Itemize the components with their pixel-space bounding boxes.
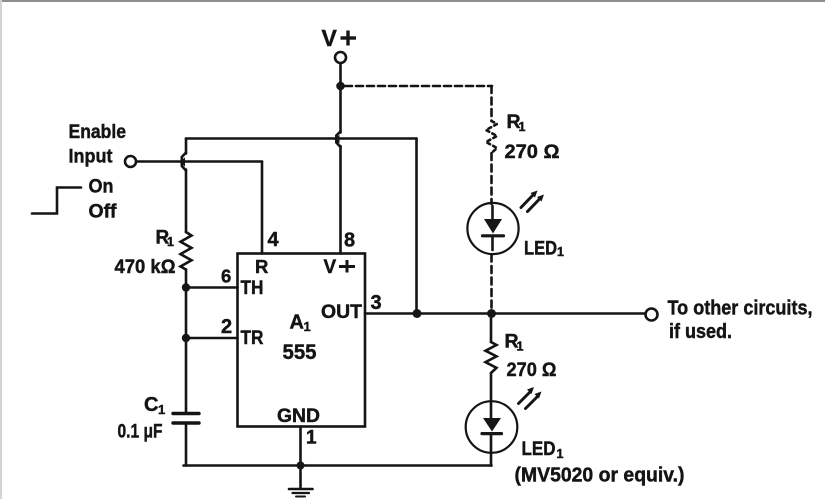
svg-text:R: R — [255, 256, 268, 277]
junction dot TR — [182, 334, 190, 342]
wire pin 4 vertical — [261, 162, 264, 254]
svg-text:V: V — [324, 257, 337, 278]
svg-text:1: 1 — [158, 402, 165, 417]
svg-text:1: 1 — [519, 120, 526, 134]
svg-text:OUT: OUT — [321, 302, 362, 323]
svg-text:LED: LED — [524, 238, 557, 260]
svg-text:if used.: if used. — [669, 321, 732, 343]
svg-text:6: 6 — [221, 266, 231, 287]
ground symbol bottom bar — [296, 496, 305, 498]
capacitor C1 top plate — [173, 412, 199, 415]
wire C1 to bottom rail — [185, 425, 188, 466]
node V+ terminal circle — [335, 52, 346, 63]
LED LED1 (top) circle — [467, 203, 518, 254]
wire left vertical R1/TH/TR/C1 rail — [185, 139, 188, 154]
crossover arrow mark at enable/rail crossing — [179, 158, 185, 167]
LED LED1 (bottom) circle — [466, 401, 518, 453]
svg-text:A: A — [290, 312, 304, 334]
svg-text:(MV5020 or equiv.): (MV5020 or equiv.) — [515, 465, 685, 487]
junction dot TH — [182, 283, 190, 291]
crossover arrow mark at V+/feedback crossing — [334, 135, 340, 144]
svg-text:On: On — [89, 176, 114, 198]
LED1 top cathode bar — [483, 234, 504, 237]
LED1 top light rays — [521, 195, 533, 208]
svg-text:TR: TR — [241, 328, 264, 349]
svg-text:Off: Off — [89, 201, 118, 223]
wire R1 to LED1 bottom — [490, 373, 493, 402]
svg-text:1: 1 — [517, 340, 524, 354]
svg-text:To other circuits,: To other circuits, — [668, 298, 813, 320]
scan edge left line — [0, 0, 2, 499]
LED1 top lead below bar — [491, 237, 494, 250]
crossover jog at enable crossing — [182, 153, 186, 171]
LED1 bottom triangle — [483, 418, 501, 432]
wire OUT pin 3 — [365, 312, 646, 315]
LED1 top triangle — [484, 219, 502, 234]
junction dot LED branch/OUT — [487, 309, 496, 318]
ground symbol middle bar — [293, 492, 310, 494]
wire enable input to pin 4 — [137, 160, 263, 163]
resistor R1 270ohm (bottom) zigzag — [486, 342, 497, 373]
svg-text:LED: LED — [522, 438, 556, 460]
svg-text:1: 1 — [557, 245, 564, 259]
wire dashed V+ to R1 top branch horizontal — [345, 85, 492, 88]
svg-text:8: 8 — [344, 230, 355, 252]
svg-text:270 Ω: 270 Ω — [507, 359, 557, 381]
svg-text:TH: TH — [241, 278, 264, 299]
svg-text:3: 3 — [371, 292, 382, 314]
wire through LED1 bottom to rail — [490, 402, 493, 418]
wire pin 6 TH — [186, 286, 238, 289]
svg-text:1: 1 — [557, 447, 564, 461]
svg-text:1: 1 — [306, 428, 317, 449]
svg-text:1: 1 — [167, 235, 174, 249]
wire pin 2 TR — [186, 337, 238, 340]
resistor R1 270ohm (dashed, optional branch) — [486, 121, 497, 153]
node Enable Input terminal circle — [125, 156, 136, 167]
node output terminal circle — [646, 309, 658, 321]
wire left rail to R1 470k — [185, 170, 188, 233]
wire below R1 470k — [185, 270, 188, 413]
svg-text:555: 555 — [283, 340, 317, 364]
junction dot feedback/OUT — [413, 309, 422, 318]
svg-text:4: 4 — [268, 229, 280, 251]
LED1 bottom cathode bar — [482, 432, 502, 435]
svg-text:270 Ω: 270 Ω — [505, 141, 560, 163]
waveform on-off step symbol — [32, 188, 81, 214]
wire dashed vertical to R1 (top) — [490, 86, 493, 121]
svg-text:V: V — [322, 25, 338, 51]
crossover jog at feedback crossing — [336, 132, 340, 148]
svg-text:GND: GND — [277, 405, 320, 427]
ray arrowheads top — [531, 191, 538, 198]
wire top horizontal (R1 470k top to OUT feedback) — [186, 137, 417, 140]
ground symbol bars — [289, 488, 313, 491]
wire pin 1 vertical — [299, 427, 302, 466]
wire LED1 bottom cathode to ground rail — [490, 435, 493, 466]
junction dot at V+ dashed branch — [336, 82, 345, 91]
svg-text:470 kΩ: 470 kΩ — [115, 257, 176, 278]
wire dashed R1 to LED1 — [490, 153, 493, 204]
svg-text:2: 2 — [221, 316, 232, 338]
wire V+ rail lower segment to pin 8 — [339, 146, 342, 254]
op-amp U1 555 timer box — [238, 254, 366, 427]
svg-text:1: 1 — [304, 319, 311, 334]
wire vertical feedback to OUT — [415, 139, 418, 314]
wire bottom ground rail — [184, 464, 492, 467]
svg-text:0.1 μF: 0.1 μF — [118, 422, 163, 443]
wire dashed LED1 to OUT node — [490, 255, 493, 311]
LED1 top anode lead — [491, 206, 494, 219]
ground symbol stub — [299, 466, 302, 488]
svg-text:Input: Input — [69, 146, 113, 168]
LED1 bottom light rays — [519, 392, 531, 404]
scan edge top line — [0, 0, 825, 2]
wire OUT node to R1 270 bottom — [490, 314, 493, 343]
svg-text:Enable: Enable — [69, 121, 127, 143]
wire V+ vertical to pin 8 — [339, 64, 342, 133]
junction dot pin1/ground — [297, 462, 305, 470]
ray arrowheads bottom — [527, 387, 534, 394]
resistor R1 470k zigzag — [181, 232, 192, 270]
svg-text:C: C — [144, 394, 158, 416]
capacitor C1 bottom plate — [173, 421, 199, 424]
